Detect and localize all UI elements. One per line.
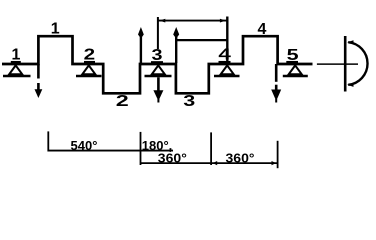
svg-text:540°: 540° [71, 138, 98, 153]
flywheel bar [344, 36, 347, 92]
svg-text:1: 1 [51, 21, 60, 38]
node support 5 [283, 65, 308, 76]
svg-text:360°: 360° [226, 150, 255, 165]
extension line at support 4 (dimension) [226, 17, 228, 64]
dimension row A line (540/180) [48, 150, 173, 152]
rotation arc arrowhead top [347, 40, 353, 44]
svg-text:360°: 360° [158, 150, 187, 165]
node support 3 [145, 65, 172, 76]
svg-text:3: 3 [183, 93, 195, 110]
force arrow up at crank 3 web [173, 27, 179, 63]
tick T1 (bottom dimensions) [47, 131, 49, 151]
wire crankshaft axis with throws [2, 36, 313, 93]
force arrow down at support 3 [153, 77, 163, 102]
row B arrowhead at T3 [213, 161, 218, 165]
wire thin shaft extension to rotation symbol [317, 63, 358, 65]
node support 4 [214, 65, 240, 76]
force arrow down at crank 1 web [35, 64, 43, 98]
svg-text:2: 2 [116, 93, 129, 110]
dimension line support3-support4 (top) [158, 19, 227, 23]
svg-text:4: 4 [258, 21, 267, 38]
label 5 (support 5) [286, 47, 298, 64]
rotation direction arc [348, 42, 367, 85]
force arrow down at crank 4 web [271, 64, 281, 103]
extension line at support 3 (dimension) [157, 17, 159, 49]
tick T2 [140, 132, 142, 165]
tick T4 [277, 141, 279, 168]
force arrow up at crank 2 web [138, 27, 144, 63]
rotation arc arrowhead bottom [347, 83, 353, 87]
row B arrowhead at T4 [272, 161, 277, 165]
dimension line crank3 web - support 4 [176, 39, 227, 41]
label 2 (support 2) [84, 47, 96, 64]
node support 1 [3, 65, 31, 76]
node support 2 [76, 65, 102, 76]
dimension row B line (360/360) [141, 162, 278, 164]
label 1 (support 1) [11, 47, 21, 64]
label 4 (support 4) [218, 47, 231, 64]
label 3 (support 3) [151, 47, 163, 64]
tick T3 [210, 132, 212, 165]
